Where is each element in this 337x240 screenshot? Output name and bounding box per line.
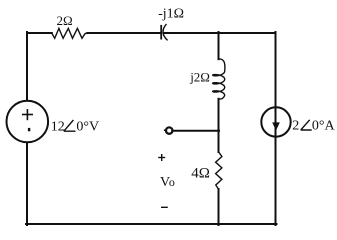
svg-text:2: 2	[292, 119, 299, 134]
svg-text:-j1Ω: -j1Ω	[158, 7, 184, 22]
svg-text:12: 12	[51, 119, 65, 134]
svg-text:j2Ω: j2Ω	[189, 69, 210, 84]
svg-text:4Ω: 4Ω	[191, 165, 210, 181]
svg-text:o: o	[169, 175, 175, 189]
svg-text:0°A: 0°A	[312, 119, 336, 134]
svg-text:2Ω: 2Ω	[57, 13, 73, 28]
svg-text:0°V: 0°V	[76, 119, 99, 134]
